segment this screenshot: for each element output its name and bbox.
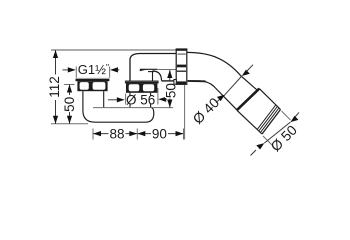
extension line bottom left (trap bottom level) (51, 123, 88, 125)
right inlet nut body (126, 83, 157, 92)
socket end rings (260, 108, 279, 133)
G dim extension line right (109, 67, 111, 78)
svg-text:G1½": G1½" (78, 62, 109, 77)
dimension O50 line lower tail and arrow (251, 150, 257, 156)
horizontal pipe bottom edge (162, 80, 177, 82)
svg-text:112: 112 (47, 76, 62, 98)
svg-text:50: 50 (164, 83, 179, 98)
dimension G1 1/2 leader right (110, 67, 118, 72)
left inlet nut plate (76, 77, 110, 79)
flange top plate (176, 49, 187, 51)
flange lower line (177, 70, 186, 72)
text O56 (127, 96, 155, 104)
dimension O50 upper arrow (290, 116, 298, 122)
text 90 (151, 129, 168, 139)
dimension O40 upper arrow (242, 70, 250, 76)
bend inner ledge line (140, 68, 158, 70)
dimension O56 leader right (157, 88, 159, 105)
outlet flange body (176, 49, 187, 84)
G dim extension line left (75, 67, 77, 78)
socket back edge (thick) (237, 89, 259, 111)
trap top line / 50 dim bottom extension (93, 107, 173, 109)
text 88 (109, 129, 126, 139)
flange bottom band (177, 81, 186, 84)
bend inner fillet (153, 71, 162, 81)
text 112 (48, 75, 60, 101)
socket top side (259, 89, 280, 110)
left tailpiece right wall (103, 91, 105, 107)
svg-text:90: 90 (152, 127, 167, 142)
dimension G1 1/2 leader left (63, 69, 70, 71)
dimension 50 right: top extension tick (157, 69, 176, 71)
text 50 right (165, 83, 175, 99)
90 dim right extension line (184, 85, 186, 140)
diagonal pipe top edge (187, 52, 258, 90)
flange inner band gray (178, 53, 186, 55)
riser outer wall and horizontal pipe top edge (130, 54, 177, 82)
trap body outline (83, 91, 154, 122)
dimension 50 left: tick at nut underside level (64, 84, 75, 86)
socket end face (262, 110, 281, 135)
extension line top (y50 from 112 dim to flange) (51, 49, 177, 51)
dimension 112 line (55, 50, 57, 124)
diagonal pipe bottom edge (187, 81, 237, 110)
right tailpiece walls (129, 93, 131, 108)
dimension O56 leader left (108, 99, 118, 101)
dimension O50 line crossing socket (264, 122, 290, 143)
left inlet nut body (77, 81, 107, 91)
svg-text:50: 50 (62, 97, 77, 112)
dimension O40 line lower segment with arrow (216, 95, 225, 103)
riser right wall (152, 71, 154, 81)
dimension O40 line crossing pipe (225, 76, 242, 95)
text 50 left (63, 95, 75, 112)
socket top side extension (282, 111, 291, 120)
flange middle joint band (177, 65, 186, 68)
dimension 88/90 baseline (93, 133, 184, 135)
socket bottom side (237, 110, 262, 134)
socket bottom side extension (263, 136, 273, 146)
svg-text:88: 88 (109, 127, 124, 142)
right inlet nut plate (125, 80, 159, 82)
diagonal pipe bottom edge thick start (188, 80, 206, 82)
flange bottom left lip (174, 80, 176, 85)
svg-text:Ø 56: Ø 56 (126, 93, 155, 108)
